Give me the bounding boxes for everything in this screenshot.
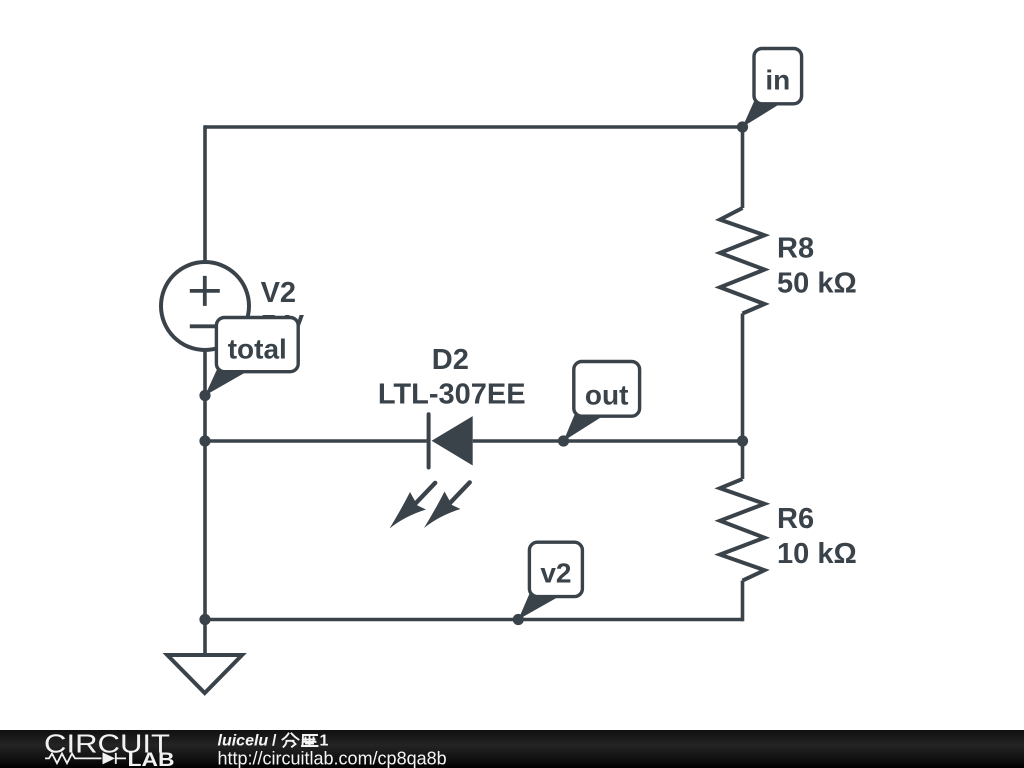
resistor R6 [720, 479, 765, 581]
svg-text:total: total [228, 334, 287, 365]
svg-text:LTL-307EE: LTL-307EE [378, 378, 526, 410]
svg-text:luicelu: luicelu [218, 733, 269, 750]
LED arrow 2 [451, 482, 470, 502]
node dot v2 [513, 614, 524, 625]
node dot out [558, 435, 569, 446]
CJK glyphs drawn as strokes [283, 734, 318, 747]
flag v2 [518, 542, 582, 619]
CircuitLab logo resistor-diode glyph [45, 753, 126, 764]
svg-text:v2: v2 [540, 558, 571, 589]
wire left rail upper [203, 125, 207, 262]
node dot in [737, 121, 748, 132]
svg-text:LAB: LAB [128, 750, 175, 768]
ground [167, 655, 242, 693]
node dot left-middle [199, 435, 210, 446]
svg-text:1: 1 [320, 733, 329, 750]
voltage source V2 [161, 262, 249, 350]
wire middle left [205, 439, 427, 443]
node dot left-bottom [199, 614, 210, 625]
wire right rail top (in node to R8) [741, 127, 745, 208]
wire top: node in to left rail [205, 125, 743, 129]
node dot total [199, 390, 210, 401]
svg-text:out: out [585, 380, 629, 411]
svg-text:R6: R6 [777, 503, 814, 535]
wire right rail bottom (R6 to bottom wire) [741, 581, 745, 622]
flag in [743, 49, 802, 128]
wire right rail mid (R8 to R6) [741, 314, 745, 480]
wire left rail lower [203, 350, 207, 655]
svg-text:V2: V2 [261, 277, 296, 309]
svg-text:in: in [765, 65, 790, 96]
svg-text:http://circuitlab.com/cp8qa8b: http://circuitlab.com/cp8qa8b [218, 749, 447, 768]
svg-text:/: / [272, 733, 277, 750]
wire middle right [473, 439, 743, 443]
resistor R8 [720, 208, 765, 314]
flag out [564, 362, 640, 442]
LED arrow 1 [416, 483, 435, 503]
svg-text:10 kΩ: 10 kΩ [777, 538, 857, 570]
wire bottom [205, 618, 743, 622]
svg-text:R8: R8 [777, 233, 814, 265]
diode D2 (LED) [390, 414, 473, 528]
logo diode triangle [103, 752, 116, 764]
node dot right-middle [737, 435, 748, 446]
svg-text:50 kΩ: 50 kΩ [777, 268, 857, 300]
svg-text:D2: D2 [432, 344, 469, 376]
flag total [205, 318, 298, 396]
